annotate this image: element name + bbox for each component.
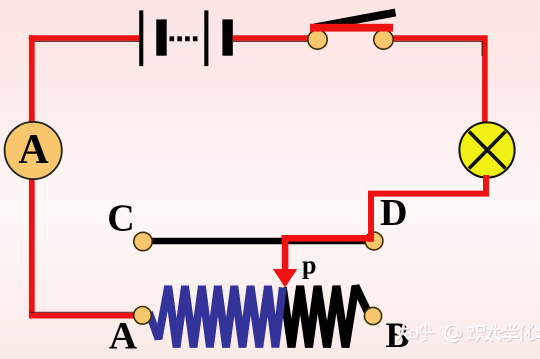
dark shadow edge above bottom wire xyxy=(29,311,137,313)
dark shadow edge under top-left wire xyxy=(29,40,139,42)
wire battery to switch xyxy=(233,35,316,41)
wire bottom (corner to rheostat terminal A) xyxy=(29,313,141,319)
switch terminal left xyxy=(308,30,327,49)
battery long plate 2 xyxy=(204,10,208,66)
wire top-left segment (corner to battery) xyxy=(29,35,140,41)
battery dotted cells xyxy=(170,36,175,41)
watermark white layer xyxy=(398,324,540,341)
terminal C xyxy=(134,232,152,250)
switch terminal right xyxy=(374,30,393,49)
wire D to wiper horizontal (red overlay on rail) xyxy=(282,235,374,242)
terminal A (rheostat) xyxy=(134,307,152,325)
ammeter A1 circle xyxy=(5,122,62,179)
terminal B (rheostat) xyxy=(364,307,381,324)
dark shadow edge under switch-corner wire xyxy=(384,41,482,56)
switch lever (black) xyxy=(314,13,396,28)
watermark shadow layer xyxy=(398,325,540,342)
wiper arrow P head xyxy=(273,269,297,288)
wire switch to top-right corner down to lamp xyxy=(384,38,485,126)
lamp cross line 1 xyxy=(469,132,506,169)
terminal D xyxy=(365,232,383,250)
switch blade bar (red) xyxy=(310,24,393,32)
svg-text:A: A xyxy=(109,314,137,357)
rheostat blue coil section (A to wiper) xyxy=(149,286,283,347)
slider rail C-D xyxy=(143,238,374,245)
battery short plate 1 xyxy=(156,19,166,55)
battery short plate 2 xyxy=(222,19,232,55)
wire lamp to terminal D xyxy=(371,175,486,242)
lamp cross line 2 xyxy=(469,132,506,169)
battery long plate 1 xyxy=(139,10,143,66)
svg-text:D: D xyxy=(380,192,407,234)
lamp L1 circle xyxy=(459,122,514,177)
battery cell group xyxy=(139,10,233,66)
svg-text:C: C xyxy=(107,198,134,240)
svg-text:A: A xyxy=(18,127,49,173)
wire left vertical xyxy=(29,35,35,318)
dark shadow edge under battery-switch wire xyxy=(233,40,316,42)
svg-text:p: p xyxy=(302,251,316,280)
rheostat black coil section (wiper to B) xyxy=(283,286,369,347)
wire wiper drop shaft xyxy=(282,235,289,270)
